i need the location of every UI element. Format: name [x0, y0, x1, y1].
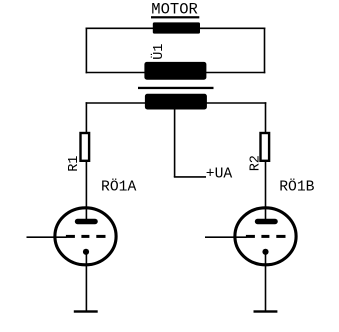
- tube RO1B anode plate: [255, 219, 278, 224]
- transformer U1 core line: [138, 87, 214, 89]
- tube RO1B envelope: [235, 208, 296, 265]
- tube RO1A grid dash 3: [96, 235, 105, 238]
- wire top loop: right vertical: [264, 28, 266, 74]
- wire R2 bottom to tube RO1B anode: [265, 162, 267, 220]
- tube RO1A grid dash 1: [66, 235, 75, 238]
- svg-text:Ü1: Ü1: [152, 44, 167, 60]
- tube RO1B grid dash 2: [261, 235, 269, 238]
- tube RO1B grid wire (external): [205, 236, 247, 238]
- wire cathode RO1B to ground: [265, 252, 267, 312]
- wire cathode RO1A to ground: [85, 252, 87, 312]
- wire left drop to R1: [85, 102, 87, 132]
- resistor R2: [261, 133, 270, 161]
- svg-text:RÖ1B: RÖ1B: [279, 178, 314, 196]
- tube RO1A grid wire (external): [27, 236, 67, 238]
- wire top loop: top horizontal: [86, 27, 266, 29]
- tube RO1A cathode dot: [83, 249, 89, 255]
- tube RO1B grid dash 1: [246, 235, 255, 238]
- wire right drop to R2: [265, 102, 267, 132]
- wire transformer center tap down: [174, 109, 176, 177]
- tube RO1A grid dash 2: [81, 235, 89, 238]
- wire secondary horizontal rail: [86, 102, 267, 104]
- tube RO1A anode plate: [75, 219, 98, 224]
- transformer U1 secondary winding (filled bar): [145, 94, 207, 110]
- svg-text:MOTOR: MOTOR: [151, 1, 198, 19]
- resistor R1: [81, 133, 90, 161]
- wire R1 bottom to tube RO1A anode: [85, 162, 87, 220]
- svg-text:+UA: +UA: [206, 167, 233, 183]
- motor winding M1 (filled bar): [153, 22, 200, 33]
- wire top loop: bottom horizontal: [86, 72, 266, 74]
- transformer U1 primary winding (filled bar): [144, 62, 206, 80]
- ground at RO1A: [74, 310, 98, 312]
- wire top loop: left vertical: [85, 28, 87, 74]
- svg-text:RÖ1A: RÖ1A: [101, 178, 136, 196]
- wire center tap to +UA: [174, 176, 206, 178]
- ground at RO1B: [254, 310, 278, 312]
- tube RO1A envelope: [55, 208, 116, 265]
- tube RO1B cathode dot: [262, 249, 268, 255]
- underline of MOTOR label: [151, 16, 199, 18]
- tube RO1B grid dash 3: [276, 235, 285, 238]
